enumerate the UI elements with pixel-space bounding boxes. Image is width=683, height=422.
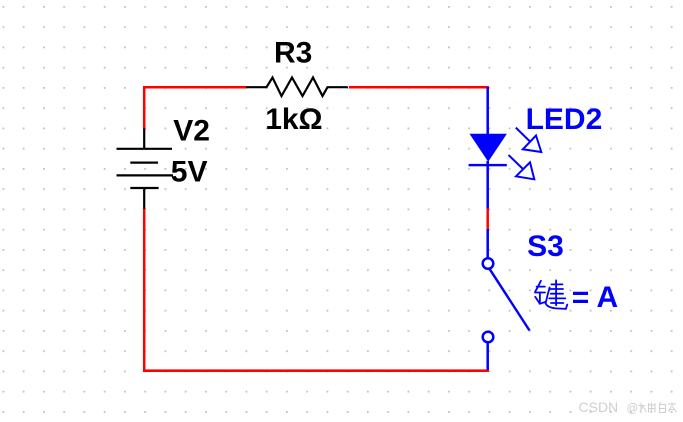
svg-text:1kΩ: 1kΩ [265,103,322,136]
resistor R3 [246,78,348,97]
label 5V [171,156,208,189]
svg-text:5V: 5V [171,156,208,189]
label 1kOhm [265,103,322,136]
LED LED2 cathode pin wire [486,161,489,209]
switch S3 top terminal circle [483,258,494,269]
switch S3 bottom pin wire [486,343,489,371]
svg-text:LED2: LED2 [526,103,603,136]
wire left (top corner down to battery) [143,86,146,130]
LED2 cathode bar [469,164,507,166]
svg-text:@: @ [627,403,639,415]
switch S3 top pin wire [486,229,489,258]
svg-text:S3: S3 [527,230,564,263]
LED LED2 anode pin wire [486,87,489,134]
label = A [572,281,618,314]
LED2 triangle [470,134,507,162]
wire top (battery to resistor) [144,86,246,89]
LED emission arrow 2 [509,155,535,179]
battery V2 [117,129,174,209]
wire bottom (battery to switch) [143,369,489,372]
label key glyph (Chinese jian) [535,280,567,309]
label V2 [173,114,210,147]
svg-text:V2: V2 [173,114,210,147]
watermark CJK glyphs [639,402,677,413]
label R3 [274,36,312,69]
label S3 [527,230,564,263]
svg-text:CSDN: CSDN [579,399,619,415]
label LED2 [526,103,603,136]
LED emission arrow 1 [516,128,542,152]
wire top (resistor to LED corner) [349,86,489,89]
wire left (battery to bottom corner) [143,209,146,373]
wire mid-right (LED to switch) [486,209,489,230]
switch S3 bottom terminal circle [483,332,494,343]
svg-text:= A: = A [572,281,618,314]
svg-text:R3: R3 [274,36,312,69]
switch S3 blade [490,269,530,331]
watermark CSDN text [579,399,639,415]
